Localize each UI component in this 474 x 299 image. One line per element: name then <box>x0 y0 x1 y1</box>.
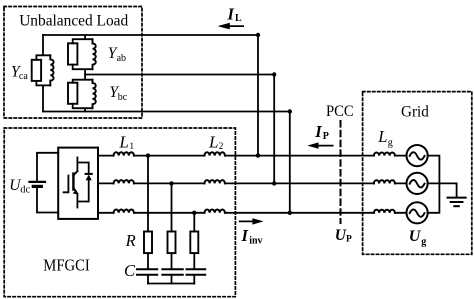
MFGCI dashed box <box>4 128 235 297</box>
wire source neutral bus <box>428 156 457 213</box>
node dot b-top <box>272 72 276 76</box>
inductor L2 phase b <box>205 180 225 183</box>
inductor L1 phase c <box>114 210 134 213</box>
node dot R branch 2 <box>169 181 173 185</box>
wire phase a (inverter to grid) <box>98 155 407 157</box>
svg-text:inv: inv <box>249 235 262 246</box>
wire phase a (load top wire) <box>43 34 258 36</box>
svg-text:PCC: PCC <box>326 103 354 120</box>
RC damping branch 1 <box>137 156 157 284</box>
svg-text:I: I <box>241 226 249 245</box>
PCC dashed line <box>340 121 342 223</box>
svg-text:bc: bc <box>118 92 128 103</box>
svg-text:ca: ca <box>19 71 28 82</box>
svg-text:I: I <box>227 5 235 24</box>
svg-text:Grid: Grid <box>401 104 429 121</box>
node dot a-top <box>256 33 260 37</box>
node dot c-top <box>288 109 292 113</box>
wire RC common bottom <box>148 283 194 285</box>
inductor L2 phase c <box>205 209 225 212</box>
admittance Ybc <box>68 80 96 112</box>
svg-text:C: C <box>124 261 136 280</box>
svg-text:L: L <box>208 132 218 151</box>
svg-text:g: g <box>388 137 393 148</box>
RC damping branch 3 <box>187 213 206 284</box>
svg-text:1: 1 <box>129 142 134 152</box>
transistor Q1 (IGBT) <box>64 157 78 207</box>
node dot a-bottom <box>256 153 260 157</box>
svg-text:L: L <box>377 127 387 146</box>
wire phase b (load middle wire) <box>85 74 274 76</box>
battery Udc <box>30 153 59 213</box>
ground <box>448 183 466 206</box>
current arrow IP <box>307 142 332 148</box>
inductor L1 phase b <box>114 180 134 183</box>
inductor Lg phase a <box>374 153 395 156</box>
AC source phase a <box>407 145 428 166</box>
bus wire a <box>257 35 259 156</box>
node dot R branch 1 <box>146 153 150 157</box>
svg-text:Unbalanced Load: Unbalanced Load <box>19 12 128 29</box>
AC source phase c <box>407 202 428 223</box>
inverter box U1 <box>58 148 98 219</box>
inductor Lg phase b <box>374 180 395 183</box>
inductor Lg phase c <box>374 210 395 213</box>
diode D1 <box>77 163 91 202</box>
bus wire c <box>289 112 291 213</box>
svg-text:P: P <box>323 131 329 142</box>
svg-text:L: L <box>235 13 242 24</box>
inductor L2 phase a <box>205 152 225 155</box>
wire phase b (inverter to grid) <box>98 182 407 184</box>
svg-text:I: I <box>314 122 322 141</box>
svg-text:P: P <box>346 235 352 245</box>
AC source phase b <box>407 173 428 194</box>
inductor L1 phase a <box>114 152 134 155</box>
current arrow IL <box>218 23 244 30</box>
grid dashed box <box>363 92 472 255</box>
bus wire b <box>273 75 275 184</box>
admittance Yca <box>32 35 54 112</box>
node dot c-bottom <box>288 211 292 215</box>
svg-text:dc: dc <box>20 185 30 196</box>
node dot R branch 3 <box>192 211 196 215</box>
svg-text:ab: ab <box>117 53 126 64</box>
svg-text:2: 2 <box>219 142 224 152</box>
wire phase c (inverter to grid) <box>98 212 407 214</box>
wire phase c (load bottom wire) <box>43 111 290 113</box>
svg-text:U: U <box>409 228 422 245</box>
unbalanced load dashed box <box>4 7 142 119</box>
admittance Yab <box>68 35 96 80</box>
svg-text:g: g <box>421 236 426 247</box>
current arrow Iinv <box>240 218 264 224</box>
RC damping branch 2 <box>162 183 182 283</box>
svg-text:U: U <box>335 227 347 244</box>
svg-text:MFGCI: MFGCI <box>43 255 90 274</box>
node dot b-bottom <box>272 181 276 185</box>
svg-text:L: L <box>118 132 128 151</box>
svg-text:R: R <box>125 231 136 250</box>
